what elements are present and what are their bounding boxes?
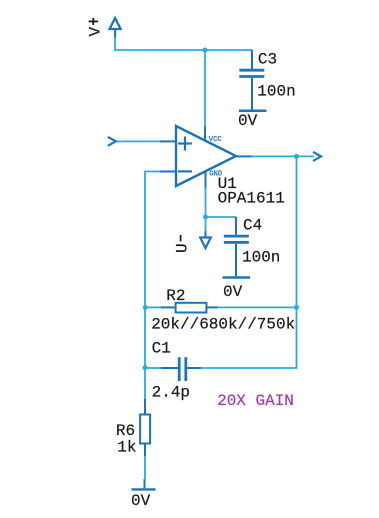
- svg-text:1k: 1k: [117, 439, 136, 457]
- wire R2 left: [145, 306, 161, 308]
- output arrow: [313, 152, 321, 161]
- svg-text:C4: C4: [243, 217, 262, 235]
- wire R2 right: [218, 306, 297, 308]
- junction node R2 left: [143, 305, 148, 310]
- wire output: [252, 155, 315, 157]
- capacitor C3: [239, 50, 264, 110]
- junction node VCC rail: [203, 48, 208, 53]
- pin stub inverting: [160, 171, 176, 173]
- ground C4: [223, 276, 251, 279]
- svg-text:V: V: [87, 27, 105, 37]
- junction node output: [294, 154, 299, 159]
- svg-text:100n: 100n: [257, 82, 295, 100]
- junction node C1 left: [143, 365, 148, 370]
- capacitor C4: [224, 217, 249, 276]
- pin stub VCC: [204, 127, 206, 141]
- power symbol V- arrow: [200, 231, 211, 248]
- wire V+ rail top: [115, 37, 252, 50]
- op-amp plus marker: [178, 137, 192, 151]
- svg-text:VCC: VCC: [209, 136, 223, 144]
- svg-text:20X GAIN: 20X GAIN: [217, 392, 294, 410]
- ground R6: [132, 479, 156, 489]
- junction node R2 right: [294, 305, 299, 310]
- input port arrow: [108, 137, 116, 146]
- ground C3: [239, 109, 267, 112]
- svg-text:0V: 0V: [238, 112, 258, 130]
- wire C1 left: [145, 367, 161, 369]
- wire right feedback rail: [201, 156, 296, 368]
- resistor R2: [161, 303, 218, 313]
- op-amp U1 triangle: [176, 126, 236, 186]
- pin stub GND: [205, 172, 207, 188]
- svg-text:R6: R6: [116, 422, 135, 440]
- pin stub output: [236, 155, 252, 157]
- svg-text:C3: C3: [258, 51, 277, 69]
- svg-text:0V: 0V: [223, 283, 243, 301]
- wire R6 bottom: [144, 456, 146, 479]
- resistor R6: [140, 399, 150, 456]
- svg-text:C1: C1: [152, 340, 171, 358]
- junction node GND net: [203, 215, 208, 220]
- svg-text:R2: R2: [166, 287, 185, 305]
- svg-text:2.4p: 2.4p: [152, 384, 190, 402]
- svg-text:20k//680k//750k: 20k//680k//750k: [151, 316, 295, 334]
- svg-text:100n: 100n: [242, 248, 280, 266]
- pin stub non-inverting: [160, 140, 176, 142]
- wire node to C4: [206, 216, 237, 218]
- wire VCC drop: [204, 50, 206, 127]
- op-amp minus marker: [178, 170, 192, 172]
- svg-text:U: U: [173, 243, 191, 253]
- wire GND pin to V- node: [205, 188, 207, 232]
- power symbol V+ arrow: [110, 18, 121, 38]
- svg-text:OPA1611: OPA1611: [218, 190, 285, 208]
- wire input: [116, 140, 160, 142]
- wire inverting input left rail: [145, 172, 160, 403]
- svg-text:0V: 0V: [131, 492, 151, 510]
- capacitor C1: [161, 357, 201, 381]
